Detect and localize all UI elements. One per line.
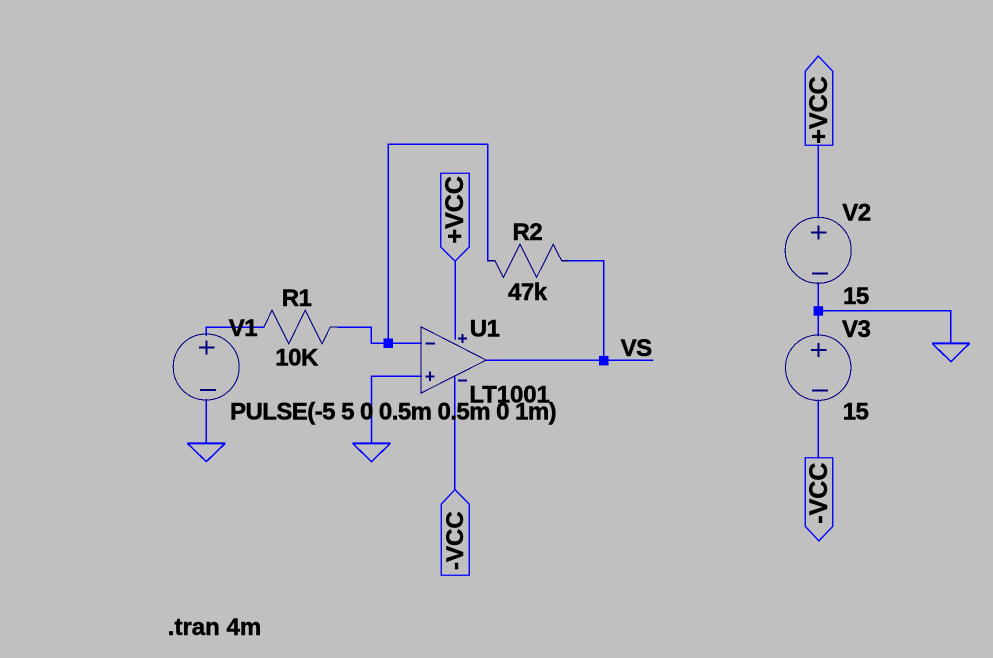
svg-text:15: 15 [843, 283, 869, 310]
svg-text:-VCC: -VCC [442, 511, 469, 570]
svg-text:R2: R2 [513, 219, 543, 246]
svg-text:U1: U1 [470, 316, 500, 343]
svg-text:+VCC: +VCC [441, 176, 469, 243]
svg-text:R1: R1 [282, 285, 312, 312]
svg-text:V1: V1 [229, 315, 258, 342]
svg-text:.tran 4m: .tran 4m [168, 614, 261, 641]
svg-text:V2: V2 [842, 200, 871, 227]
svg-text:15: 15 [843, 399, 869, 426]
svg-text:-VCC: -VCC [805, 463, 833, 524]
svg-text:10K: 10K [275, 345, 319, 372]
svg-text:LT1001: LT1001 [469, 382, 549, 409]
svg-text:47k: 47k [508, 279, 548, 306]
svg-text:VS: VS [621, 335, 653, 362]
svg-text:+VCC: +VCC [805, 76, 833, 143]
svg-text:V3: V3 [842, 316, 871, 343]
